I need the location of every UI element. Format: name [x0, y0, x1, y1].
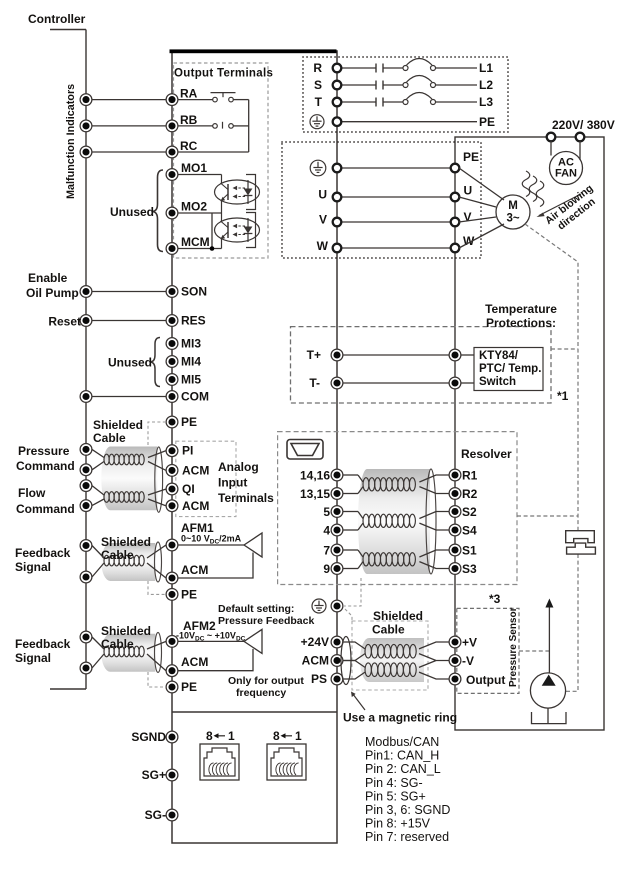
svg-text:*1: *1: [557, 389, 569, 403]
svg-text:FAN: FAN: [555, 168, 577, 180]
svg-text:Feedback: Feedback: [15, 637, 71, 651]
svg-text:T-: T-: [309, 376, 320, 390]
svg-text:Cable: Cable: [101, 637, 134, 651]
svg-text:Input: Input: [218, 476, 247, 490]
svg-text:Default setting:: Default setting:: [218, 603, 294, 615]
svg-text:T: T: [315, 95, 323, 109]
svg-text:PE: PE: [181, 415, 197, 429]
svg-text:Enable: Enable: [28, 271, 68, 285]
svg-text:R1: R1: [462, 469, 478, 483]
svg-text:Pressure: Pressure: [18, 444, 70, 458]
svg-text:Controller: Controller: [28, 12, 86, 26]
svg-text:9: 9: [323, 562, 330, 576]
svg-text:Oil Pump: Oil Pump: [26, 286, 79, 300]
svg-text:Output Terminals: Output Terminals: [174, 68, 273, 80]
svg-text:1: 1: [228, 729, 235, 743]
svg-text:+24V: +24V: [301, 635, 329, 649]
svg-text:MO1: MO1: [181, 161, 207, 175]
svg-text:SG+: SG+: [142, 768, 166, 782]
svg-text:Pin 5: SG+: Pin 5: SG+: [365, 789, 426, 803]
svg-text:V: V: [319, 213, 327, 227]
svg-text:4: 4: [323, 524, 330, 538]
svg-text:SG-: SG-: [145, 808, 166, 822]
svg-text:8: 8: [273, 729, 280, 743]
svg-text:Pin 8: +15V: Pin 8: +15V: [365, 817, 431, 831]
svg-text:PI: PI: [182, 444, 193, 458]
svg-text:PE: PE: [479, 115, 495, 129]
svg-text:Cable: Cable: [372, 623, 405, 637]
svg-text:Unused: Unused: [110, 205, 154, 219]
svg-text:U: U: [464, 184, 473, 198]
svg-text:PTC/ Temp.: PTC/ Temp.: [479, 363, 541, 375]
svg-text:Signal: Signal: [15, 560, 51, 574]
svg-text:COM: COM: [181, 390, 209, 404]
svg-text:QI: QI: [182, 482, 195, 496]
svg-text:L2: L2: [479, 78, 493, 92]
svg-text:220V/ 380V: 220V/ 380V: [552, 118, 615, 132]
svg-text:R2: R2: [462, 487, 478, 501]
svg-text:PS: PS: [311, 672, 327, 686]
svg-text:Shielded: Shielded: [93, 418, 143, 432]
svg-text:ACM: ACM: [181, 655, 208, 669]
svg-text:V: V: [464, 210, 472, 224]
svg-text:1: 1: [295, 729, 302, 743]
svg-text:L1: L1: [479, 61, 493, 75]
svg-text:U: U: [318, 188, 327, 202]
svg-text:MCM: MCM: [181, 235, 210, 249]
svg-text:ACM: ACM: [302, 654, 329, 668]
svg-text:MO2: MO2: [181, 200, 207, 214]
svg-text:S2: S2: [462, 505, 477, 519]
svg-text:Cable: Cable: [101, 548, 134, 562]
svg-text:Flow: Flow: [18, 486, 46, 500]
svg-text:Malfunction Indicators: Malfunction Indicators: [65, 84, 77, 199]
svg-text:Protections:: Protections:: [486, 316, 556, 330]
svg-text:Output: Output: [466, 673, 505, 687]
svg-text:Temperature: Temperature: [485, 302, 557, 316]
svg-text:frequency: frequency: [236, 687, 286, 699]
svg-text:Modbus/CAN: Modbus/CAN: [365, 735, 439, 749]
svg-text:Pin 7: reserved: Pin 7: reserved: [365, 830, 449, 844]
svg-text:Switch: Switch: [479, 376, 516, 388]
svg-text:*3: *3: [489, 592, 501, 606]
svg-text:7: 7: [323, 544, 330, 558]
svg-text:Command: Command: [16, 459, 75, 473]
svg-text:ACM: ACM: [181, 563, 208, 577]
svg-text:14,16: 14,16: [300, 469, 330, 483]
svg-text:Pin 2: CAN_L: Pin 2: CAN_L: [365, 762, 441, 776]
svg-text:S3: S3: [462, 562, 477, 576]
svg-text:Pin 3, 6: SGND: Pin 3, 6: SGND: [365, 803, 450, 817]
svg-text:ACM: ACM: [182, 499, 209, 513]
svg-text:PE: PE: [181, 680, 197, 694]
svg-text:PE: PE: [463, 150, 479, 164]
svg-text:Use a magnetic ring: Use a magnetic ring: [343, 711, 457, 725]
svg-text:+V: +V: [462, 636, 477, 650]
svg-text:S1: S1: [462, 544, 477, 558]
svg-text:Cable: Cable: [93, 431, 126, 445]
svg-text:Reset: Reset: [48, 315, 81, 329]
svg-text:Signal: Signal: [15, 651, 51, 665]
svg-text:KTY84/: KTY84/: [479, 350, 519, 362]
svg-text:Terminals: Terminals: [218, 491, 274, 505]
svg-text:M: M: [508, 200, 518, 212]
svg-text:PE: PE: [181, 587, 197, 601]
svg-text:8: 8: [206, 729, 213, 743]
svg-text:W: W: [317, 239, 329, 253]
svg-text:3~: 3~: [506, 213, 519, 225]
svg-text:SGND: SGND: [131, 730, 166, 744]
svg-text:MI4: MI4: [181, 355, 201, 369]
svg-text:Resolver: Resolver: [461, 447, 512, 461]
svg-text:L3: L3: [479, 95, 493, 109]
svg-text:-V: -V: [462, 654, 474, 668]
svg-text:Analog: Analog: [218, 460, 259, 474]
svg-text:RES: RES: [181, 314, 206, 328]
svg-text:Shielded: Shielded: [101, 624, 151, 638]
svg-text:Pin1: CAN_H: Pin1: CAN_H: [365, 749, 439, 763]
svg-text:RC: RC: [180, 139, 198, 153]
svg-text:Pressure Sensor: Pressure Sensor: [508, 607, 519, 687]
svg-text:MI5: MI5: [181, 373, 201, 387]
svg-text:Shielded: Shielded: [101, 535, 151, 549]
svg-text:Pressure Feedback: Pressure Feedback: [218, 615, 314, 627]
svg-text:Unused: Unused: [108, 356, 152, 370]
svg-text:SON: SON: [181, 285, 207, 299]
svg-text:Only for output: Only for output: [228, 675, 304, 687]
svg-text:13,15: 13,15: [300, 487, 330, 501]
svg-text:S: S: [314, 78, 322, 92]
svg-text:Command: Command: [16, 502, 75, 516]
svg-text:RA: RA: [180, 87, 198, 101]
svg-text:5: 5: [323, 505, 330, 519]
svg-text:RB: RB: [180, 113, 198, 127]
svg-text:ACM: ACM: [182, 463, 209, 477]
svg-text:R: R: [313, 61, 322, 75]
svg-text:Feedback: Feedback: [15, 546, 71, 560]
svg-text:Shielded: Shielded: [373, 609, 423, 623]
svg-text:S4: S4: [462, 524, 477, 538]
svg-text:Pin 4: SG-: Pin 4: SG-: [365, 776, 423, 790]
svg-text:T+: T+: [307, 348, 321, 362]
svg-text:MI3: MI3: [181, 337, 201, 351]
